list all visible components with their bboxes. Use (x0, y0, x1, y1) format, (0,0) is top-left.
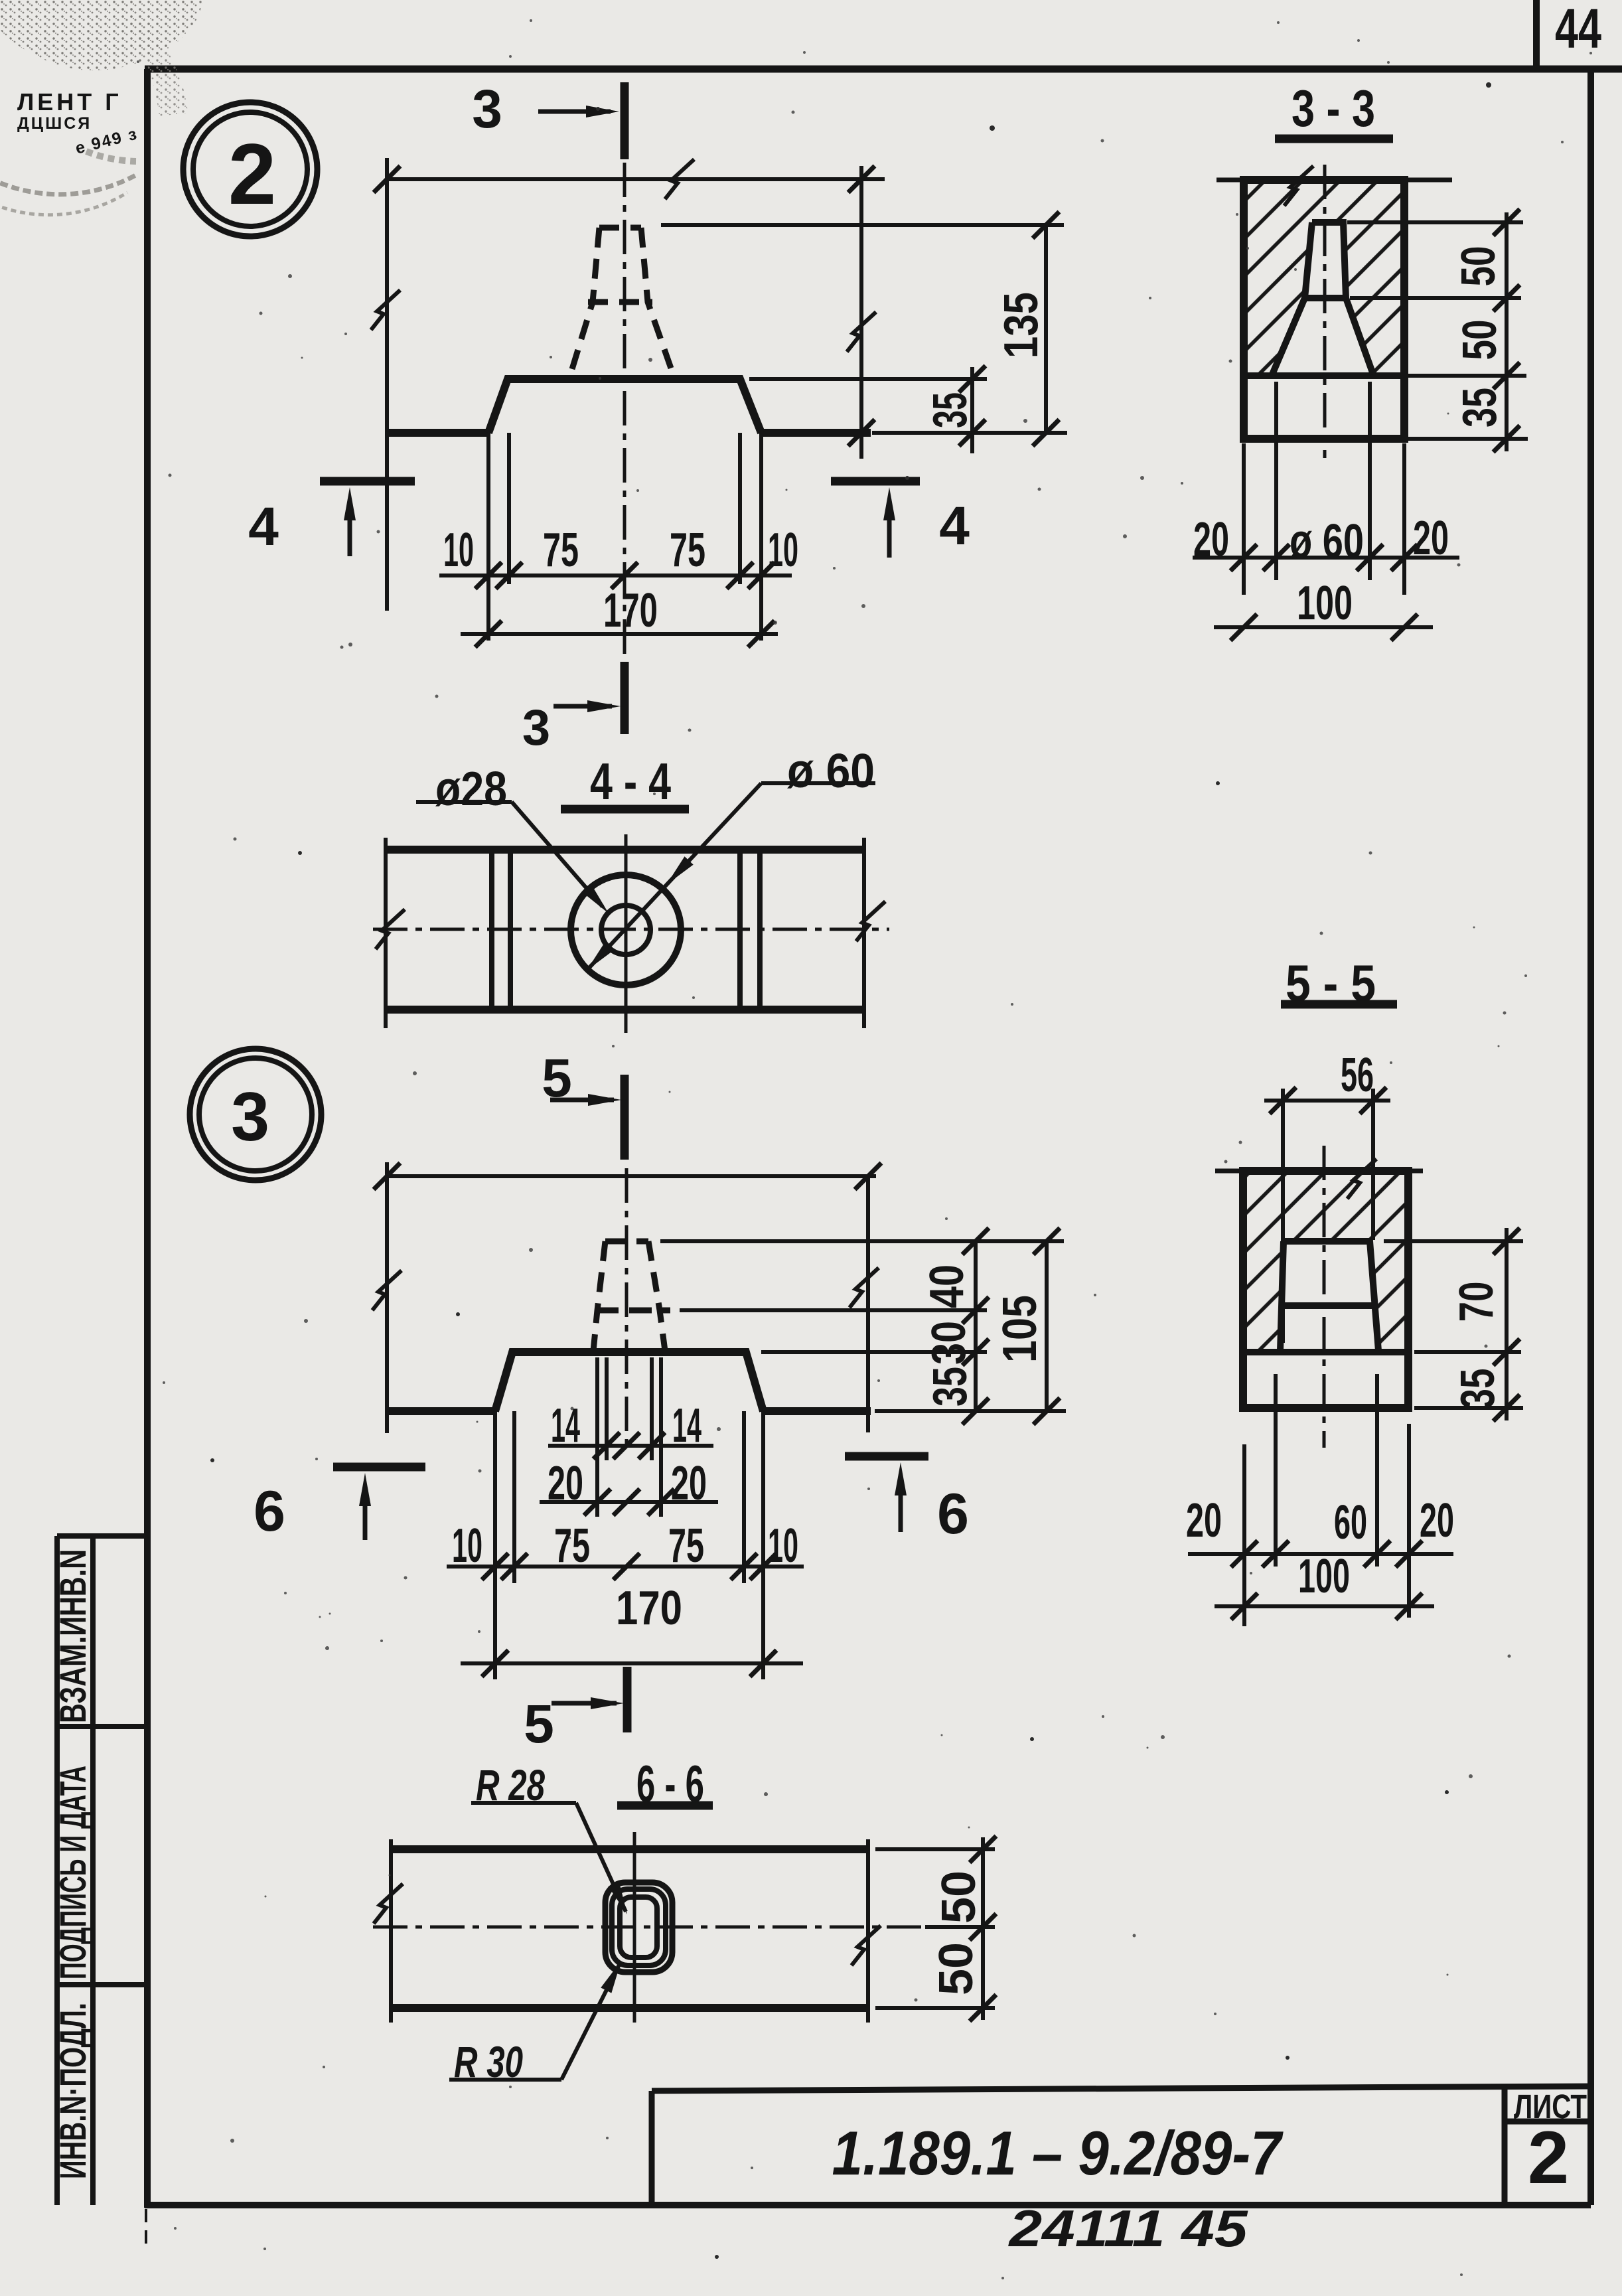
svg-text:50: 50 (932, 1871, 986, 1924)
svg-text:ДЦШСЯ: ДЦШСЯ (17, 114, 92, 133)
svg-text:35: 35 (1453, 388, 1507, 427)
svg-text:20: 20 (548, 1457, 583, 1510)
svg-text:3: 3 (231, 1079, 269, 1156)
svg-text:60: 60 (1334, 1496, 1367, 1549)
svg-text:1.189.1 – 9.2/89-7: 1.189.1 – 9.2/89-7 (832, 2118, 1284, 2188)
svg-text:44: 44 (1555, 0, 1601, 60)
svg-text:35: 35 (1451, 1369, 1505, 1409)
svg-text:3 - 3: 3 - 3 (1291, 79, 1375, 137)
svg-text:ПОДПИСЬ И ДАТА: ПОДПИСЬ И ДАТА (52, 1766, 94, 1979)
svg-text:2: 2 (1528, 2116, 1569, 2199)
svg-text:10: 10 (452, 1519, 482, 1572)
svg-text:50: 50 (1452, 246, 1505, 287)
svg-text:R 30: R 30 (454, 2037, 523, 2086)
svg-text:75: 75 (670, 524, 705, 577)
svg-text:75: 75 (543, 524, 579, 577)
svg-text:100: 100 (1298, 1550, 1350, 1603)
svg-text:3: 3 (472, 79, 502, 139)
svg-text:100: 100 (1297, 577, 1353, 630)
svg-text:2: 2 (228, 125, 276, 222)
svg-text:70: 70 (1450, 1282, 1503, 1322)
svg-text:50: 50 (930, 1942, 983, 1995)
svg-text:20: 20 (1186, 1494, 1222, 1547)
svg-text:170: 170 (616, 1582, 682, 1635)
svg-text:170: 170 (603, 584, 658, 637)
svg-text:ИНВ.N·ПОДЛ.: ИНВ.N·ПОДЛ. (52, 2003, 94, 2179)
svg-text:5: 5 (524, 1694, 554, 1754)
svg-text:14: 14 (672, 1399, 701, 1452)
svg-text:105: 105 (994, 1295, 1047, 1363)
svg-text:3: 3 (522, 700, 550, 756)
svg-text:20: 20 (1420, 1494, 1454, 1547)
svg-text:20: 20 (671, 1457, 707, 1510)
svg-text:10: 10 (443, 524, 474, 577)
svg-text:ø 60: ø 60 (1290, 515, 1364, 568)
svg-text:4: 4 (939, 496, 970, 556)
svg-text:56: 56 (1341, 1049, 1374, 1102)
svg-text:24111 45: 24111 45 (1007, 2199, 1248, 2258)
svg-text:35: 35 (924, 392, 977, 428)
svg-text:20: 20 (1193, 513, 1229, 566)
svg-text:14: 14 (551, 1399, 580, 1452)
svg-text:R 28: R 28 (476, 1760, 545, 1809)
svg-text:135: 135 (995, 292, 1048, 358)
svg-text:4: 4 (248, 497, 279, 557)
svg-text:10: 10 (768, 524, 798, 577)
svg-text:6: 6 (937, 1482, 969, 1546)
svg-text:75: 75 (668, 1519, 704, 1572)
svg-text:75: 75 (554, 1519, 590, 1572)
svg-text:5: 5 (542, 1048, 572, 1109)
svg-text:40: 40 (921, 1264, 974, 1308)
svg-text:35: 35 (924, 1367, 977, 1407)
svg-text:50: 50 (1453, 320, 1507, 360)
svg-text:20: 20 (1413, 512, 1449, 565)
svg-text:ЛЕНТ Г: ЛЕНТ Г (17, 88, 122, 115)
svg-text:10: 10 (768, 1519, 798, 1572)
svg-text:4 - 4: 4 - 4 (590, 752, 671, 810)
svg-text:ø 60: ø 60 (787, 745, 875, 798)
svg-text:6: 6 (254, 1480, 285, 1543)
svg-text:30: 30 (922, 1321, 976, 1365)
svg-text:ø28: ø28 (435, 763, 507, 816)
svg-text:ВЗАМ.ИНВ.N: ВЗАМ.ИНВ.N (52, 1549, 94, 1723)
